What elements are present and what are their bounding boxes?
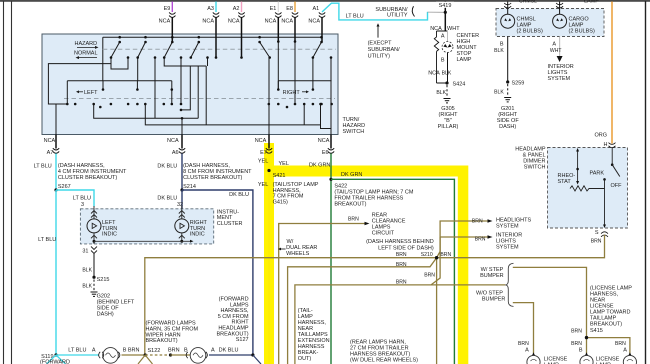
wire: E6 route inside box xyxy=(330,58,332,149)
svg-text:NCA: NCA xyxy=(318,138,330,144)
svg-text:CHMSL: CHMSL xyxy=(519,0,537,5)
svg-text:BLK: BLK xyxy=(82,267,92,273)
svg-text:BRN: BRN xyxy=(475,236,486,242)
left section stubs xyxy=(66,81,68,104)
svg-text:UTILITY: UTILITY xyxy=(387,13,408,19)
harness breakout hook xyxy=(412,6,414,16)
connector A3: LT BLU feed xyxy=(202,2,219,58)
svg-text:NCA: NCA xyxy=(281,19,293,25)
svg-text:DK BLU: DK BLU xyxy=(229,192,249,198)
svg-text:SUBURBAN/: SUBURBAN/ xyxy=(368,47,401,53)
center stop lamp branch split xyxy=(437,30,448,32)
wire: chmsl B BLK to S259 xyxy=(494,37,508,83)
svg-text:B: B xyxy=(579,347,583,353)
connector A1: LT BLU to suburban/utility xyxy=(308,6,325,42)
lamp: center high mount stop lamp xyxy=(442,42,453,53)
page left border line 2 xyxy=(11,1,13,364)
hazard blade 6 xyxy=(313,42,322,58)
svg-text:H: H xyxy=(604,142,608,148)
svg-text:BRN: BRN xyxy=(518,341,529,347)
(EXECPT SUBURBAN/UTILITY) note with arrow xyxy=(368,23,401,59)
wire: A7 output inside box xyxy=(55,104,57,148)
wire: right contact drop 304 xyxy=(303,104,305,125)
wire: A6 output inside box xyxy=(181,118,183,148)
svg-text:NCA: NCA xyxy=(228,19,240,25)
left section rail xyxy=(67,80,172,82)
svg-text:CIRCUIT: CIRCUIT xyxy=(372,230,395,236)
svg-text:S415: S415 xyxy=(590,328,603,334)
S terminal connector xyxy=(601,232,608,237)
node S424 xyxy=(437,82,448,84)
park contact node xyxy=(603,178,606,181)
svg-text:31: 31 xyxy=(82,248,88,254)
switch interior: left inner vertical xyxy=(102,37,104,81)
svg-text:LT BLU: LT BLU xyxy=(346,13,364,19)
svg-text:WHT: WHT xyxy=(447,26,460,32)
HAZARD label with arrow xyxy=(75,41,99,49)
svg-text:B: B xyxy=(441,58,445,64)
svg-text:PILLAR): PILLAR) xyxy=(438,124,459,130)
wire: LT BLU branch to cluster pin 3 xyxy=(56,190,94,207)
svg-text:STAT: STAT xyxy=(558,179,572,185)
node S215 xyxy=(92,276,95,279)
svg-text:WHEELS: WHEELS xyxy=(286,251,310,257)
front lamp right (park/turn) xyxy=(186,348,207,364)
cluster internal bus with arrow xyxy=(94,240,190,242)
wire: blade2 lower drop xyxy=(137,58,139,81)
connector E9: PPL feed xyxy=(159,2,176,43)
wire: link to S419 xyxy=(428,11,446,13)
svg-text:NCA: NCA xyxy=(265,19,277,25)
yellow highlight: right vertical band xyxy=(458,166,469,364)
connector E1: WHT feed xyxy=(265,2,282,42)
svg-text:A: A xyxy=(552,42,556,48)
svg-text:BRN: BRN xyxy=(168,347,180,353)
wire: BLK dashed to ground G202 xyxy=(93,280,95,292)
node S422 xyxy=(329,178,332,181)
output E6: NCA stub and connector xyxy=(318,135,334,156)
svg-text:BREAKOUT): BREAKOUT) xyxy=(146,338,178,344)
lamp CARGO (2 bulbs) xyxy=(553,14,567,28)
wire: DK BLU to cluster pin 32 xyxy=(181,190,183,209)
svg-text:BRN: BRN xyxy=(591,239,602,245)
svg-text:YEL: YEL xyxy=(279,161,289,167)
node S267 xyxy=(54,188,57,191)
license lamp (w/o step bumper) xyxy=(518,341,540,364)
wire: DK BLU S214 right and down to front lamp xyxy=(182,190,253,355)
svg-text:OFF: OFF xyxy=(611,183,623,189)
svg-text:BUMPER: BUMPER xyxy=(482,297,506,303)
svg-text:YEL: YEL xyxy=(258,158,268,164)
wire: input E1 drop xyxy=(277,42,279,90)
svg-text:BRN: BRN xyxy=(571,341,582,347)
svg-text:HAZARD: HAZARD xyxy=(75,41,98,47)
svg-text:A: A xyxy=(441,34,445,40)
yellow highlight: horizontal band over DK GRN run xyxy=(264,166,468,177)
svg-text:OUT): OUT) xyxy=(298,356,312,362)
svg-text:A6: A6 xyxy=(172,150,179,156)
svg-text:NORMAL: NORMAL xyxy=(74,51,98,57)
RIGHT label with arrow xyxy=(283,90,309,96)
switch interior: left/right dashed travel line xyxy=(64,98,335,100)
headlamp and panel dimmer switch box xyxy=(548,148,628,229)
svg-text:LAMP: LAMP xyxy=(457,57,472,63)
svg-text:(2 BULBS): (2 BULBS) xyxy=(569,29,595,35)
svg-text:ORG: ORG xyxy=(594,133,607,139)
wire: mid vertical 198 xyxy=(197,66,199,118)
wire: E7 output inside box xyxy=(268,58,270,149)
step bumper option brace xyxy=(505,263,513,306)
wire: DK GRN S422 right and down (highlighted path) xyxy=(331,179,454,364)
svg-text:B: B xyxy=(500,42,504,48)
brown parking lamp network xyxy=(145,221,630,364)
svg-text:BRN: BRN xyxy=(440,252,451,258)
svg-text:CLUSTER BREAKOUT): CLUSTER BREAKOUT) xyxy=(58,175,117,181)
svg-text:UTILITY): UTILITY) xyxy=(368,53,390,59)
svg-text:BREAKOUT): BREAKOUT) xyxy=(334,201,366,207)
license lamp (w/ step bumper A) xyxy=(615,341,636,364)
node S259 xyxy=(506,80,509,83)
svg-text:DASH): DASH) xyxy=(499,124,516,130)
svg-text:NCA: NCA xyxy=(159,19,171,25)
svg-text:A: A xyxy=(92,348,96,354)
LEFT label with arrow xyxy=(76,90,98,96)
svg-text:YEL: YEL xyxy=(258,182,268,188)
svg-text:E6: E6 xyxy=(322,150,329,156)
NORMAL label with arrow xyxy=(74,51,98,60)
svg-text:DK BLU: DK BLU xyxy=(219,347,239,353)
wire: contact 164 jog xyxy=(164,58,206,67)
wire: BRN branch y285 to brace xyxy=(295,237,440,364)
wire: BRN dimmer S down and across to S210 xyxy=(145,235,605,356)
wire: BRN dashed option to second dot xyxy=(145,354,170,356)
output A6: NCA stub and connector xyxy=(167,135,185,156)
HEADLAMP & PANEL DIMMER SWITCH label xyxy=(515,147,546,171)
rheostat zigzag xyxy=(570,186,605,191)
output E7: NCA stub and connector xyxy=(255,135,273,156)
svg-text:SWITCH: SWITCH xyxy=(524,165,546,171)
svg-text:CLUSTER: CLUSTER xyxy=(217,221,243,227)
arrow to interior lights system xyxy=(488,235,493,239)
svg-text:NCA: NCA xyxy=(430,26,442,32)
svg-text:LT BLU: LT BLU xyxy=(34,163,52,169)
wire: cargo A WHT to interior lights xyxy=(550,37,563,63)
resistor (chmsl feed) xyxy=(434,31,438,83)
wire: bridge contact 111 to 128 xyxy=(111,58,128,70)
ground G201 xyxy=(504,98,511,102)
TURN/HAZARD SWITCH label xyxy=(343,117,366,135)
svg-text:BLK: BLK xyxy=(442,71,452,77)
svg-text:S122: S122 xyxy=(148,348,161,354)
wire: LT BLU down to S119 xyxy=(55,190,57,355)
svg-text:NCA: NCA xyxy=(202,19,214,25)
chmsl/cargo lamp box xyxy=(496,9,604,37)
svg-text:S424: S424 xyxy=(453,82,466,88)
license lamp (w/ step bumper B) xyxy=(571,341,593,364)
svg-text:3: 3 xyxy=(81,202,84,208)
svg-text:SYSTEM: SYSTEM xyxy=(496,224,519,230)
right section rail xyxy=(278,80,331,82)
svg-text:INDIC: INDIC xyxy=(190,232,205,238)
svg-text:BRN: BRN xyxy=(396,252,407,258)
instrument cluster: left turn indicator lamp xyxy=(87,206,101,254)
wire: lamp B down to S424 xyxy=(447,53,449,84)
page right border xyxy=(645,1,647,364)
wire: park contact to S output xyxy=(604,179,606,226)
svg-text:PARK: PARK xyxy=(590,171,605,177)
hazard blade 4 xyxy=(191,42,199,58)
wire: BRN S210 south drop xyxy=(436,258,438,364)
svg-text:(EXECPT: (EXECPT xyxy=(368,40,392,46)
wire: cargo lamp feed xyxy=(559,2,561,15)
svg-text:BLK: BLK xyxy=(436,90,446,96)
svg-text:A: A xyxy=(525,347,529,353)
node S119 with LT BLU splices xyxy=(40,353,99,364)
wire: ORG feed to dimmer switch xyxy=(611,2,613,144)
svg-text:SYSTEM: SYSTEM xyxy=(548,76,571,82)
svg-text:DK BLU: DK BLU xyxy=(157,163,177,169)
svg-text:B: B xyxy=(123,348,127,354)
switch interior contact dots xyxy=(66,36,333,120)
node S122 xyxy=(144,353,147,356)
svg-text:NCA: NCA xyxy=(428,71,440,77)
svg-text:A: A xyxy=(623,347,627,353)
svg-text:A2: A2 xyxy=(233,6,240,12)
wire: blade1 lower to left bus xyxy=(48,58,111,105)
svg-text:LEFT: LEFT xyxy=(84,90,98,96)
node S210 xyxy=(435,256,438,259)
wire: BRN rear clearance branch xyxy=(279,224,365,364)
svg-text:NCA: NCA xyxy=(44,138,56,144)
wire: mid vertical 206 xyxy=(205,66,207,125)
svg-text:DASH): DASH) xyxy=(97,311,114,317)
wire: WHT lamp branch xyxy=(447,31,449,42)
svg-text:S210: S210 xyxy=(421,252,433,258)
svg-text:A1: A1 xyxy=(312,6,319,12)
svg-text:(W/ DUEL REAR WHEELS): (W/ DUEL REAR WHEELS) xyxy=(350,357,418,363)
svg-text:BRN: BRN xyxy=(615,341,626,347)
svg-text:NCA: NCA xyxy=(167,138,179,144)
svg-text:LEFT SIDE OF DASH): LEFT SIDE OF DASH) xyxy=(378,246,434,252)
hazard blade 5 xyxy=(260,42,270,58)
svg-text:A3: A3 xyxy=(207,6,214,12)
svg-text:SWITCH: SWITCH xyxy=(343,129,365,135)
svg-text:DK BLU: DK BLU xyxy=(157,196,177,202)
svg-text:BRN: BRN xyxy=(396,279,407,285)
svg-text:BRN: BRN xyxy=(571,328,582,334)
svg-text:BLK: BLK xyxy=(494,48,504,54)
front lamp left (park/turn) xyxy=(99,348,120,364)
wire: BRN to front lamp right xyxy=(171,354,191,356)
yellow highlight: left vertical band over YEL wire xyxy=(264,143,274,364)
svg-text:E8: E8 xyxy=(286,6,293,12)
wire: corner bus at box lower right xyxy=(321,104,332,129)
svg-text:WHT: WHT xyxy=(550,48,562,54)
node S214 xyxy=(180,188,183,191)
wire: BRN branch y267 xyxy=(288,258,437,364)
svg-text:SYSTEM: SYSTEM xyxy=(496,244,519,250)
wire: contact 155 long drop xyxy=(154,58,156,119)
svg-text:A: A xyxy=(211,348,215,354)
wire: LT BLU suburban/utility run xyxy=(322,3,428,20)
svg-text:BLK: BLK xyxy=(494,90,504,96)
wire: DK BLU A6 to S214 xyxy=(181,154,183,191)
wire: BRN w/o step bumper to license lamp xyxy=(513,303,534,354)
svg-text:BRN: BRN xyxy=(348,217,359,223)
arrow to rear clearance lamps circuit xyxy=(365,222,370,226)
hazard blade 3 xyxy=(164,42,172,58)
svg-text:E1: E1 xyxy=(270,6,277,12)
svg-text:(FORWARD: (FORWARD xyxy=(40,360,70,364)
wire: contact 207 drop xyxy=(207,58,209,67)
hazard blade 1 xyxy=(111,42,120,58)
svg-text:(DASH HARNESS BEHIND: (DASH HARNESS BEHIND xyxy=(366,239,434,245)
svg-text:S421: S421 xyxy=(273,173,286,179)
wire: mid vertical 190 xyxy=(181,66,190,110)
instrument cluster: right turn indicator lamp xyxy=(175,206,189,241)
svg-text:BLK: BLK xyxy=(82,283,92,289)
node S419 xyxy=(436,2,454,32)
wire: chmsl lamp feed xyxy=(507,2,509,15)
svg-text:A7: A7 xyxy=(47,150,54,156)
ground G202 xyxy=(91,292,98,296)
svg-text:DK GRN: DK GRN xyxy=(341,172,362,178)
wire: input E8 drop xyxy=(294,42,296,105)
wire: DK BLU lamp to junction xyxy=(209,354,253,356)
svg-text:NCA: NCA xyxy=(308,19,320,25)
svg-text:BRN: BRN xyxy=(424,273,435,279)
lamp CHMSL (2 bulbs) xyxy=(501,14,515,28)
svg-text:E9: E9 xyxy=(164,6,171,12)
svg-text:BUMPER: BUMPER xyxy=(480,273,504,279)
svg-text:LT BLU: LT BLU xyxy=(68,347,86,353)
svg-text:G415): G415) xyxy=(273,199,288,205)
svg-text:S214: S214 xyxy=(183,184,196,190)
svg-text:S127: S127 xyxy=(236,337,249,343)
svg-text:LAMP: LAMP xyxy=(584,0,599,5)
wire: BRN w/ step bumper to S415 xyxy=(513,267,587,353)
svg-text:(2 BULBS): (2 BULBS) xyxy=(517,29,543,35)
dimmer interior: panel lamps feed with arrows xyxy=(577,150,579,183)
node S415 xyxy=(585,336,588,339)
svg-text:S267: S267 xyxy=(58,184,71,190)
wire: DK GRN E6 to S422 and down xyxy=(330,154,332,364)
W/ DUAL REAR WHEELS note with arrow xyxy=(278,239,317,257)
ground G305 xyxy=(444,99,451,103)
output A7: NCA stub and connector xyxy=(44,135,60,156)
wire: contact 181 drop xyxy=(180,58,182,105)
svg-text:LT BLU: LT BLU xyxy=(38,237,56,243)
svg-text:CLUSTER BREAKOUT): CLUSTER BREAKOUT) xyxy=(183,175,242,181)
right section stubs xyxy=(277,81,279,90)
svg-text:NCA: NCA xyxy=(255,138,267,144)
hazard blade 2 xyxy=(138,42,146,58)
svg-text:RIGHT: RIGHT xyxy=(283,90,301,96)
wire: BRN S415 to right license lamp xyxy=(587,338,630,354)
wire: YEL E7 down (highlighted) xyxy=(268,154,270,364)
switch interior: hazard dashed travel line xyxy=(103,48,336,50)
dimmer switch blade xyxy=(611,148,620,177)
wire: BRN lamp to S122 xyxy=(122,354,146,356)
connector A2: PNK feed xyxy=(228,2,245,58)
lower bus 1 xyxy=(94,104,199,118)
svg-text:BRN: BRN xyxy=(128,347,140,353)
svg-text:S419: S419 xyxy=(439,3,452,9)
arrow to headlights system xyxy=(488,219,493,223)
node S421 xyxy=(267,169,270,172)
page left border line 1 xyxy=(3,1,5,364)
wire: BRN branch to headlights/interior arrows xyxy=(437,221,488,258)
wire: LT BLU A7 to S267 xyxy=(55,154,57,191)
svg-text:S215: S215 xyxy=(97,277,110,283)
svg-text:BRN: BRN xyxy=(472,218,483,224)
instrument cluster box xyxy=(80,209,213,244)
page top border xyxy=(0,0,650,2)
svg-text:BRN: BRN xyxy=(396,262,407,268)
svg-text:LT BLU: LT BLU xyxy=(73,196,91,202)
svg-text:DK GRN: DK GRN xyxy=(309,162,330,168)
svg-text:BREAKOUT): BREAKOUT) xyxy=(590,322,622,328)
svg-text:E7: E7 xyxy=(260,150,267,156)
switch interior: top contact rail xyxy=(103,36,322,38)
svg-text:INDIC: INDIC xyxy=(102,232,117,238)
svg-text:S: S xyxy=(595,230,599,236)
connector E8: ORG feed xyxy=(281,2,298,42)
lower bus 2 xyxy=(145,104,320,125)
svg-text:S259: S259 xyxy=(512,81,525,87)
turn/hazard switch box xyxy=(42,34,338,135)
